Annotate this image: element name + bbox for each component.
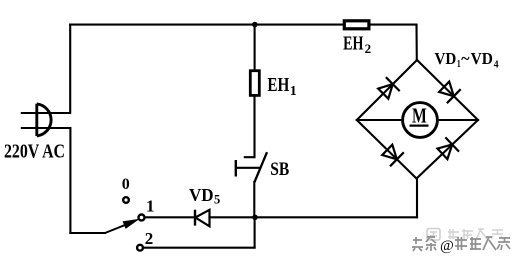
- bridge diamond top-right edge: [417, 60, 478, 120]
- pushbutton SB actuator horizontal: [236, 167, 261, 169]
- bridge diode VD2 (top-right edge): [439, 82, 461, 104]
- svg-text:VD: VD: [435, 49, 457, 68]
- svg-text:M: M: [412, 103, 427, 127]
- bridge diode VD4 (bottom-right edge): [438, 137, 460, 159]
- bridge diamond top-left edge: [357, 60, 417, 120]
- wire top horizontal right segment: [371, 24, 417, 26]
- svg-text:VD: VD: [189, 185, 214, 205]
- svg-text:1: 1: [290, 84, 297, 99]
- resistor EH2: [344, 21, 369, 29]
- selector contact 0: [123, 197, 129, 203]
- wire bottom horizontal junction to bridge: [255, 216, 418, 218]
- junction dot bottom (SB / VD5 / contact 2 tap): [252, 215, 258, 221]
- selector blade arrowhead: [123, 220, 138, 229]
- bridge diode VD1 (top-left edge): [378, 77, 400, 99]
- svg-text:~: ~: [461, 49, 469, 68]
- svg-text:1: 1: [457, 58, 461, 70]
- wire SB blade bottom to junction: [253, 182, 255, 217]
- watermark dark layer text 头条@维修人家: [412, 236, 510, 254]
- junction dot top (EH1 branch tap): [252, 22, 258, 28]
- wire middle vertical upper to EH1: [254, 25, 256, 70]
- svg-text:4: 4: [494, 59, 499, 71]
- bridge horizontal diagonal left of motor: [357, 119, 403, 121]
- diode VD5 triangle: [195, 210, 209, 227]
- svg-text:220V AC: 220V AC: [4, 140, 65, 162]
- svg-text:0: 0: [122, 176, 130, 193]
- selector blade wire: [105, 222, 133, 233]
- wire EH1 to SB fixed contact: [245, 97, 255, 158]
- wire bottom-left horizontal to selector blade: [70, 232, 105, 234]
- watermark light layer icon: [427, 229, 440, 241]
- pushbutton SB blade: [254, 152, 267, 182]
- plug X (220V AC source) body: [37, 104, 51, 136]
- pushbutton SB actuator end bar: [235, 160, 237, 177]
- motor M circle: [403, 103, 438, 138]
- bridge diamond bottom-right edge: [417, 120, 479, 179]
- selector contact 2: [137, 245, 143, 251]
- svg-text:VD: VD: [471, 49, 493, 68]
- wire top horizontal left segment: [70, 24, 342, 26]
- wire contact 2 horizontal: [144, 247, 254, 249]
- svg-text:EH: EH: [343, 33, 364, 55]
- svg-text:EH: EH: [267, 74, 289, 96]
- wire left vertical lower: [69, 128, 71, 233]
- svg-text:2: 2: [145, 229, 154, 248]
- plug top prong wire: [21, 112, 70, 114]
- wire contact 1 to VD5 cathode: [146, 216, 195, 218]
- diode VD5 cathode bar: [194, 210, 196, 226]
- svg-text:2: 2: [365, 41, 372, 56]
- motor M underline: [410, 124, 429, 126]
- svg-text:SB: SB: [270, 160, 289, 180]
- wire junction down to contact 2 level: [254, 217, 256, 247]
- plug bottom prong wire: [21, 127, 71, 129]
- wire right vertical to bridge top vertex: [415, 25, 417, 60]
- wire VD5 to junction: [210, 216, 255, 218]
- svg-text:1: 1: [146, 196, 155, 215]
- selector contact 1: [139, 215, 145, 221]
- svg-text:5: 5: [214, 193, 220, 207]
- watermark light layer text 维修人家: [448, 229, 503, 239]
- wire left vertical upper: [69, 25, 71, 113]
- svg-text:@: @: [440, 238, 454, 254]
- bridge horizontal diagonal right of motor: [437, 119, 478, 121]
- resistor EH1: [250, 71, 259, 96]
- bridge diode VD3 (bottom-left edge): [382, 145, 404, 167]
- bridge diamond bottom-left edge: [357, 120, 417, 179]
- wire bridge bottom vertical: [416, 179, 418, 218]
